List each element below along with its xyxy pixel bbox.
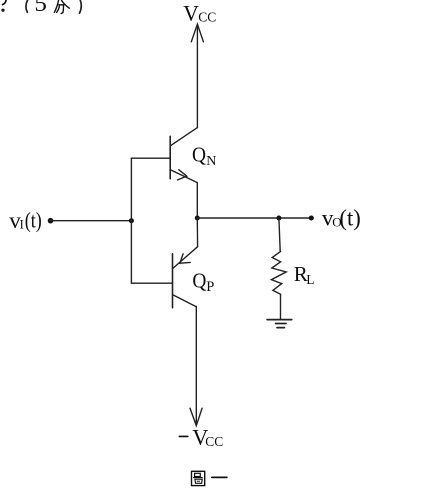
- svg-text:P: P: [206, 279, 214, 295]
- svg-text:I: I: [20, 218, 24, 232]
- label vI(t): [9, 208, 42, 234]
- label QP: [192, 269, 214, 296]
- svg-text:(t): (t): [25, 208, 42, 233]
- label QN: [192, 142, 216, 169]
- wire: output node to terminal: [197, 217, 311, 219]
- wire: output to RL top: [279, 218, 280, 251]
- svg-text:L: L: [306, 272, 314, 287]
- label RL: [294, 262, 315, 287]
- wire: input to base bus: [51, 220, 132, 222]
- question text fragment "?" (cut off at top): [1, 0, 6, 12]
- label -Vcc: [179, 424, 223, 449]
- svg-text:V: V: [183, 0, 199, 25]
- output terminal dot: [309, 216, 314, 221]
- caption CJK "一": [212, 476, 227, 478]
- svg-text:5: 5: [34, 0, 47, 16]
- wire: QN emitter down to output node: [196, 183, 198, 218]
- node: input/base-bus junction: [129, 218, 134, 223]
- svg-text:(t): (t): [339, 205, 360, 230]
- node: RL branch junction: [276, 216, 281, 221]
- wire: base bus vertical: [130, 158, 132, 283]
- caption CJK "圖": [192, 471, 205, 485]
- wire: RL bottom to ground: [280, 294, 282, 319]
- label vO(t): [322, 205, 361, 230]
- Vcc supply wire with up arrow: [191, 24, 203, 127]
- wire: QN base: [131, 157, 170, 159]
- question text fragment fullwidth open paren (cut off at top): [26, 0, 28, 12]
- svg-text:Q: Q: [192, 142, 206, 166]
- question text fragment CJK "分" (cut off at top): [54, 0, 69, 14]
- question text fragment fullwidth close paren (cut off at top): [80, 0, 82, 13]
- Vcc supply label: [183, 0, 216, 25]
- wire: QP base: [131, 282, 172, 284]
- svg-text:CC: CC: [205, 434, 223, 449]
- node: output junction: [195, 216, 200, 221]
- transistor QP (PNP): [173, 247, 198, 308]
- svg-text:N: N: [206, 154, 216, 169]
- ground: [267, 320, 292, 328]
- wire: QP collector down with arrow to -Vcc: [190, 307, 202, 426]
- resistor RL: [271, 251, 286, 294]
- wire: output node down to QP emitter: [196, 218, 198, 247]
- svg-text:Q: Q: [192, 269, 206, 293]
- svg-text:CC: CC: [198, 10, 216, 25]
- input terminal dot: [48, 218, 54, 224]
- transistor QN (NPN): [170, 128, 197, 183]
